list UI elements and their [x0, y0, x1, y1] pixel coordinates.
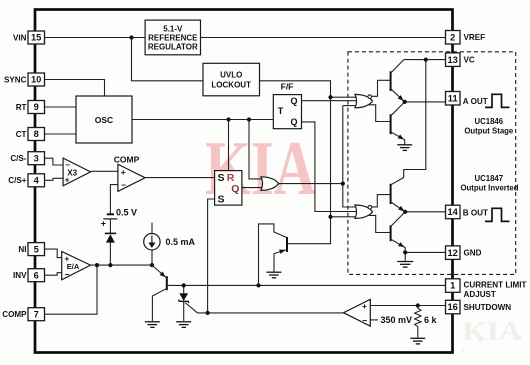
op-amp X3 current sense amplifier — [63, 158, 90, 186]
node current source — [150, 263, 154, 267]
svg-text:UVLO: UVLO — [220, 71, 242, 80]
wire regulator to VREF pin 2 — [201, 37, 446, 39]
svg-text:−: − — [65, 269, 70, 279]
wire clock drop to OR gate input — [249, 120, 263, 179]
wire UVLO to NOR A input — [331, 96, 357, 98]
wire latch second S input drop — [208, 199, 215, 313]
resistor 6k — [415, 306, 438, 327]
svg-text:C/S-: C/S- — [10, 154, 26, 163]
node zener base — [182, 283, 186, 287]
wire 350mV stub — [370, 319, 378, 321]
node E/A comp feedback — [95, 263, 99, 267]
svg-text:VIN: VIN — [13, 33, 27, 42]
svg-text:OSC: OSC — [95, 115, 113, 125]
svg-text:4: 4 — [34, 176, 40, 186]
pin 7 COMP — [2, 308, 44, 321]
svg-text:+: + — [101, 219, 106, 229]
transistor QB1 upper B-stage — [391, 184, 406, 213]
node UVLO NOR B — [328, 215, 332, 219]
svg-text:12: 12 — [448, 248, 458, 258]
oscillator OSC box — [76, 96, 132, 143]
svg-text:+: + — [65, 176, 70, 185]
svg-text:8: 8 — [34, 129, 39, 139]
node UVLO NOR A — [328, 95, 332, 99]
wire A OUT line to pin 11 — [405, 101, 446, 103]
wire VIN branch down to UVLO — [132, 38, 204, 81]
svg-text:−: − — [121, 180, 126, 190]
5.1-V reference regulator box — [145, 20, 200, 55]
svg-text:RT: RT — [16, 103, 27, 112]
svg-text:LOCKOUT: LOCKOUT — [211, 81, 251, 90]
svg-text:REFERENCE: REFERENCE — [148, 34, 198, 43]
svg-text:COMP: COMP — [2, 310, 27, 319]
svg-text:1: 1 — [450, 281, 455, 291]
pin 12 GND — [446, 246, 482, 260]
ground for resistor — [410, 338, 425, 344]
svg-text:Q: Q — [291, 96, 298, 106]
wire shutdown plus input to pin 16 — [370, 305, 445, 307]
pin 4 C/S+ — [8, 174, 44, 187]
wire clock drop to latch R input — [228, 120, 230, 171]
wire pin3 to X3 amp — [45, 158, 64, 165]
svg-text:10: 10 — [31, 75, 41, 85]
battery 0.5 V — [101, 207, 137, 228]
svg-text:CT: CT — [16, 130, 27, 139]
transistor Q1 current limit PNP — [152, 265, 167, 321]
node diode clamp — [108, 263, 112, 267]
svg-text:B OUT: B OUT — [463, 208, 488, 217]
svg-text:+: + — [362, 301, 367, 311]
svg-text:0.5 mA: 0.5 mA — [166, 237, 196, 247]
node Q2 collector — [256, 283, 260, 287]
node clock to latch R — [226, 117, 230, 121]
pin 1 CURRENT LIMIT ADJUST — [446, 279, 527, 299]
svg-text:COMP: COMP — [114, 155, 140, 165]
watermark corner — [462, 317, 522, 353]
UVLO lockout box — [203, 63, 260, 96]
toggle flip-flop F/F box — [273, 81, 301, 128]
pin 3 C/S- — [10, 152, 44, 165]
pin 8 CT — [16, 128, 45, 141]
pin 2 VREF — [446, 31, 486, 45]
pin 5 NI — [18, 243, 44, 256]
ground for Q2 — [266, 272, 281, 278]
pin 11 A OUT — [446, 92, 488, 107]
wire NOR A bottom input — [343, 105, 357, 107]
wire shutdown comparator output line — [198, 312, 344, 314]
ground for zener — [176, 322, 191, 328]
diode D1 clamp — [105, 233, 116, 242]
pin 13 VC — [446, 53, 475, 67]
wire B OUT line to pin 14 — [405, 211, 445, 213]
or gate U3 after latch — [261, 177, 279, 191]
svg-text:5.1-V: 5.1-V — [163, 25, 183, 34]
svg-text:7: 7 — [34, 309, 39, 319]
pin 10 SYNC — [4, 73, 45, 86]
wire GND line to pin 12 — [405, 251, 445, 253]
svg-text:16: 16 — [448, 302, 458, 312]
wire SYNC to OSC top — [45, 80, 105, 97]
svg-text:+: + — [121, 167, 126, 177]
transistor QA1 upper A-stage — [391, 60, 406, 103]
svg-text:SYNC: SYNC — [4, 75, 27, 84]
ground for A stage — [397, 145, 412, 151]
svg-text:T: T — [278, 106, 284, 116]
wire resistor to ground — [417, 327, 419, 338]
svg-text:VREF: VREF — [464, 33, 486, 42]
shutdown comparator — [344, 299, 413, 326]
wire comparator output to latch S — [145, 177, 215, 179]
waveform A OUT pulse — [485, 94, 510, 107]
wire E/A output line — [91, 264, 153, 266]
nor gate B — [355, 195, 390, 233]
svg-text:3: 3 — [34, 153, 39, 163]
pin 6 INV — [13, 269, 45, 282]
svg-text:5: 5 — [34, 244, 39, 254]
svg-text:9: 9 — [34, 102, 39, 112]
svg-text:Q: Q — [231, 183, 239, 195]
svg-text:C/S+: C/S+ — [8, 176, 26, 185]
svg-text:15: 15 — [31, 33, 41, 43]
node GND line — [403, 250, 407, 254]
nor gate A — [355, 80, 390, 121]
wire OSC output to F/F T input — [132, 119, 273, 121]
svg-text:SHUTDOWN: SHUTDOWN — [464, 303, 512, 312]
IC border — [35, 10, 453, 353]
svg-text:Q: Q — [291, 117, 298, 127]
ground for B stage / pin 12 — [397, 262, 413, 268]
svg-text:ADJUST: ADJUST — [464, 290, 496, 299]
wire OR output riser to NOR gates — [279, 106, 356, 207]
wire VC line to pin 13 — [404, 59, 446, 61]
wire F/F Qbar to NOR B input — [302, 122, 358, 212]
wire latch Q to OR gate input — [242, 187, 263, 189]
node B OUT — [403, 210, 407, 214]
node shutdown resistor — [416, 303, 420, 307]
svg-text:A OUT: A OUT — [463, 97, 488, 106]
pin 16 SHUTDOWN — [446, 300, 512, 314]
transistor Q2 inhibit — [259, 224, 288, 286]
pin 9 RT — [16, 101, 45, 114]
op-amp E/A error amplifier — [62, 252, 91, 280]
svg-text:S: S — [218, 193, 225, 205]
svg-text:REGULATOR: REGULATOR — [148, 42, 198, 51]
wire CT to OSC — [45, 133, 77, 135]
svg-text:NI: NI — [18, 245, 26, 254]
svg-text:KIA: KIA — [462, 317, 522, 346]
svg-text:6 k: 6 k — [424, 315, 438, 325]
wire comparator minus to battery — [110, 185, 118, 214]
svg-text:11: 11 — [448, 93, 458, 103]
wire zener diagonal to shutdown line — [185, 303, 198, 313]
wire UVLO output down the inhibit rail — [260, 81, 331, 244]
wire current source stub — [151, 223, 153, 234]
node A OUT — [403, 100, 407, 104]
transistor QA2 lower A-stage — [391, 102, 406, 144]
wire UVLO to NOR B bottom input — [331, 216, 358, 218]
svg-text:Output Inverted: Output Inverted — [460, 183, 518, 192]
wire COMP pin feedback — [45, 265, 98, 314]
wire pin5 NI to E/A — [45, 249, 63, 258]
label UC1846 output stage — [464, 117, 514, 136]
svg-text:0.5 V: 0.5 V — [116, 207, 137, 217]
wire pin6 INV to E/A — [45, 273, 63, 276]
svg-text:6: 6 — [34, 270, 39, 280]
wire VIN to regulator — [45, 37, 146, 39]
svg-text:VC: VC — [464, 56, 475, 65]
ground for Q1 — [145, 322, 160, 328]
wire RT to OSC — [45, 106, 77, 108]
label UC1847 output inverted — [460, 174, 518, 192]
svg-text:S: S — [218, 172, 225, 184]
PWM latch box — [215, 171, 242, 206]
pin 14 B OUT — [446, 205, 489, 219]
transistor QB2 lower B-stage — [391, 212, 406, 253]
wire pin4 to X3 amp — [45, 178, 64, 180]
svg-text:F/F: F/F — [281, 81, 294, 91]
svg-text:INV: INV — [13, 271, 27, 280]
node OR output riser — [341, 182, 345, 186]
waveform B OUT pulse — [485, 208, 510, 221]
wire current source to E/A line — [151, 250, 153, 265]
svg-text:14: 14 — [448, 207, 459, 217]
svg-text:2: 2 — [450, 32, 455, 42]
svg-text:UC1847: UC1847 — [474, 174, 503, 183]
svg-text:13: 13 — [448, 55, 458, 65]
svg-text:UC1846: UC1846 — [474, 117, 503, 126]
dashed output-stage box — [348, 52, 516, 275]
comparator COMP — [114, 155, 145, 192]
svg-text:GND: GND — [464, 249, 482, 258]
wire VC drop to B stage — [391, 60, 426, 185]
watermark KIA — [205, 125, 316, 211]
node VC drop — [424, 58, 428, 62]
zener diode D2 — [179, 285, 189, 321]
wire clamp diode to E/A line — [109, 242, 111, 265]
node clock to OR — [247, 117, 251, 121]
svg-text:Output Stage: Output Stage — [464, 127, 514, 136]
wire pin 12 ground stub — [404, 252, 406, 261]
wire X3 output to comparator — [91, 170, 118, 172]
wire current limit base line to pin 1 — [167, 284, 446, 286]
wire F/F Q to NOR A input — [302, 100, 358, 102]
node latch S2 shutdown — [206, 311, 210, 315]
svg-text:CURRENT LIMIT: CURRENT LIMIT — [464, 281, 527, 290]
pin 15 VIN — [13, 31, 45, 44]
current source 0.5 mA — [144, 234, 196, 250]
svg-text:−: − — [362, 315, 367, 325]
svg-text:350 mV: 350 mV — [381, 315, 413, 325]
node VIN branch — [129, 35, 133, 39]
wire battery to clamp diode — [109, 219, 111, 233]
